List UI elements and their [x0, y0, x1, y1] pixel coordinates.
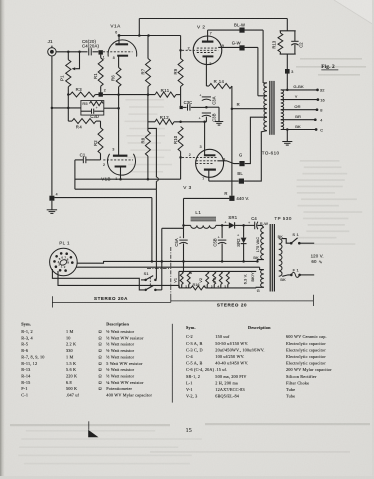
table divider: [171, 324, 173, 403]
resistor R14: [206, 85, 209, 87]
wires PL1 to switch: [52, 269, 144, 290]
resistor R9: [180, 36, 182, 59]
output transformer primary: [264, 83, 267, 96]
R5/C3D box: [81, 101, 104, 116]
primary lead to S1: [282, 239, 291, 244]
input jack J1: [48, 48, 56, 56]
V3 cathode (top): [204, 154, 216, 156]
wire L-drop to switch: [148, 128, 157, 177]
resistor R2: [100, 154, 102, 160]
terminal BL-W: [239, 28, 244, 33]
heater bus bottom / R16: [179, 287, 191, 289]
V2 heater: [206, 271, 209, 284]
wire plate rail y35.5: [119, 35, 181, 37]
resistor R8: [145, 131, 150, 156]
wire top feedback rail: [139, 18, 287, 20]
wire L1 left feed: [162, 227, 184, 229]
V1B plate: [113, 155, 128, 157]
heater bus top: [179, 270, 256, 272]
wire node4 bus: [54, 197, 151, 199]
tap BK C: [281, 129, 316, 131]
wire R center-tap lead: [232, 108, 267, 110]
wire rail B: [75, 188, 156, 190]
resistor R7: [147, 36, 149, 59]
V1A cathode: [117, 55, 128, 57]
capacitor C5B: [221, 224, 224, 227]
power transformer primary: [279, 239, 282, 277]
wire B+ column: [231, 86, 233, 196]
wire G-W screen lead: [218, 46, 258, 48]
node 3: [286, 54, 288, 90]
pentode V3 envelope: [196, 149, 224, 177]
resistor R12: [155, 119, 174, 124]
wire J1 ground drop: [51, 56, 53, 196]
node 2: [99, 92, 103, 96]
V3 plate (bottom): [204, 169, 216, 171]
6.3V heater winding: [261, 270, 264, 288]
V1A plate: [115, 43, 128, 45]
wire BL plate lead: [209, 180, 239, 182]
capacitor C3D: [81, 110, 91, 112]
resistor R5: [90, 101, 104, 105]
capacitor C6(20)/C4(20A): [80, 51, 88, 53]
triode V1A envelope: [108, 40, 137, 57]
V2 grids (dashed): [182, 49, 218, 51]
V1A pin 6 riser: [118, 36, 120, 45]
V3 heater: [219, 271, 222, 284]
tap OR 8: [281, 109, 317, 111]
terminal G: [239, 161, 244, 166]
dimension line STEREO 20: [171, 300, 314, 302]
potentiometer P1: [67, 52, 69, 60]
capacitor C1: [75, 159, 83, 161]
silicon rectifier SR2: [242, 224, 245, 227]
wire BL-W plate lead: [208, 29, 264, 31]
resistor R13: [280, 30, 296, 32]
wire box to V1B plate column: [104, 107, 119, 109]
ground (C3 common): [215, 121, 224, 123]
plug PL1: [50, 248, 78, 276]
node C3C: [180, 106, 183, 109]
ink mark triangle: [88, 421, 90, 430]
wire wiper riser: [75, 52, 79, 69]
triode V1B envelope: [108, 154, 136, 175]
V1 heater: [180, 271, 183, 284]
wire V1A grid (dashed): [103, 51, 133, 53]
resistor R10: [178, 127, 183, 152]
wire cathode rail A: [75, 178, 181, 180]
ground secondary: [286, 128, 289, 131]
choke L1: [184, 224, 191, 226]
resistor R6: [116, 68, 121, 87]
power transformer core: [269, 224, 271, 292]
resistor R4: [67, 95, 69, 122]
silicon rectifier SR1: [222, 224, 229, 226]
wire ground rail: [77, 261, 257, 263]
power transformer TP530 HV secondary: [261, 228, 264, 260]
wire heater feed: [77, 266, 260, 268]
V1B cathode: [115, 166, 127, 168]
node 1: [99, 50, 103, 54]
resistor R11: [155, 92, 176, 97]
capacitor C4: [244, 224, 255, 226]
node 4 / main ground: [49, 196, 54, 201]
switch S1 (line): [290, 242, 293, 245]
wire to ground tap: [206, 106, 219, 108]
V2 cathode: [203, 55, 214, 57]
tap Y 16: [281, 99, 318, 101]
wire B+ to filter: [184, 197, 230, 199]
wire y121.8 rail: [148, 121, 155, 123]
fuse F1: [282, 275, 291, 276]
wire G screen lead: [217, 161, 239, 164]
dimension line STEREO 20A: [51, 296, 53, 307]
wire cathode rail y94.6: [103, 94, 155, 96]
tap G-BK 32: [281, 89, 318, 91]
wire J1 to input node: [56, 51, 79, 53]
resistor R1: [100, 55, 102, 58]
V1B grid (dashed): [103, 159, 133, 161]
resistor R3: [68, 94, 70, 96]
capacitor C3C: [183, 106, 187, 108]
chassis dash-dot boundary: [147, 267, 171, 269]
V1B plate riser column: [118, 95, 120, 156]
output transformer secondary: [281, 90, 284, 100]
V2 plate: [202, 40, 214, 42]
terminal BL: [239, 179, 244, 184]
wire ground feed to box: [52, 107, 81, 109]
wire riser to top rail: [138, 19, 140, 36]
left column R7/R8: [147, 95, 149, 131]
switch S1 (primary DPST): [144, 279, 147, 282]
V3 grids (dashed): [182, 156, 217, 158]
wire B+ column to C5A: [183, 198, 185, 238]
pentode V2 envelope: [193, 36, 222, 65]
capacitor C2: [294, 31, 296, 41]
node R 440V: [229, 196, 234, 201]
output transformer core: [269, 81, 271, 135]
terminal G-W: [239, 45, 244, 50]
tap BR 4: [281, 119, 316, 121]
